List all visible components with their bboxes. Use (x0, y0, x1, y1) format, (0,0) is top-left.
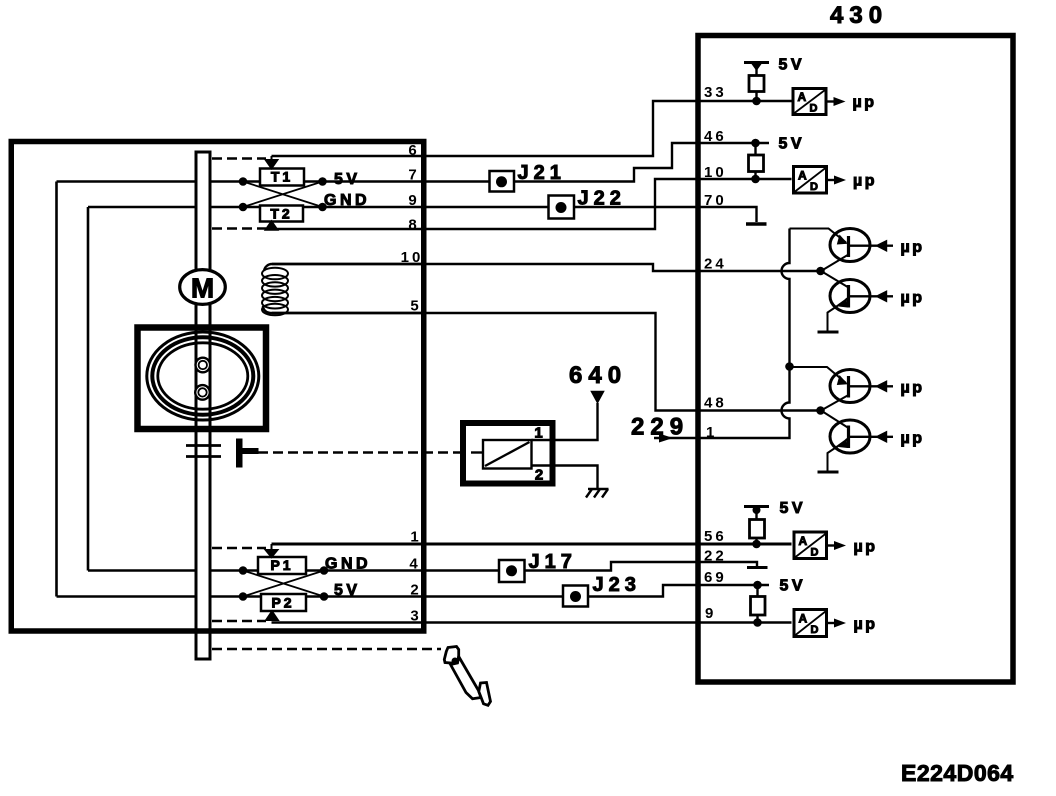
svg-text:5V: 5V (334, 171, 361, 188)
svg-text:5: 5 (410, 298, 421, 315)
svg-text:1: 1 (706, 424, 717, 441)
svg-text:J21: J21 (518, 162, 566, 184)
svg-text:5V: 5V (334, 582, 361, 599)
wire pin4 GND line through J17 to 430 pin22 (88, 562, 757, 571)
svg-text:2: 2 (410, 582, 421, 599)
junction pin9 (753, 618, 762, 627)
resistor R2 (divider pin46/pin10) (749, 155, 764, 172)
transistor Q1 (high-side driver) (790, 229, 925, 272)
wire sensor pin2 to chassis ground (532, 466, 598, 489)
potentiometer P2 (239, 592, 329, 620)
potentiometer T1 (239, 156, 327, 186)
svg-text:T1: T1 (271, 169, 293, 185)
wire crossover T1/T2 (243, 182, 323, 208)
mech dashed link shaft to pedal (212, 648, 441, 650)
ground (Q4 emitter) (818, 471, 839, 474)
mech dashed link shaft to P2 wiper (212, 620, 266, 622)
svg-text:P1: P1 (270, 557, 293, 573)
svg-text:5V: 5V (780, 578, 807, 595)
transistor Q4 (low-side driver) (818, 411, 925, 473)
svg-text:229: 229 (631, 414, 689, 441)
potentiometer T2 (239, 203, 327, 230)
svg-text:1: 1 (410, 529, 421, 546)
A/D converter U1 (pin33) (793, 89, 877, 115)
throttle butterfly disc (147, 332, 259, 420)
splice J21 (490, 162, 566, 192)
svg-text:E224D064: E224D064 (901, 760, 1014, 786)
wire T2 wiper pin8 to 430 pin10 (272, 179, 792, 229)
svg-text:9: 9 (705, 605, 716, 622)
wire crossover P1/P2 (243, 571, 324, 597)
junction at pin24 (816, 267, 825, 276)
wire T1 wiper pin6 to 430 pin33 (272, 101, 792, 156)
wire GND rail (T2 left to P1 left, x=88) (87, 207, 90, 571)
svg-text:µp: µp (901, 380, 925, 397)
5V supply tap at pin46 (749, 136, 806, 184)
svg-text:A: A (799, 612, 808, 626)
motor M (180, 270, 226, 305)
svg-text:A: A (798, 90, 807, 104)
wire pin9 GND line through J22 to 430 pin70 (88, 207, 757, 222)
transistor Q2 (low-side driver) (818, 271, 925, 332)
svg-text:D: D (810, 181, 818, 193)
svg-text:6: 6 (408, 142, 419, 159)
junction pin69 (753, 581, 762, 590)
svg-text:46: 46 (704, 128, 727, 145)
wire P2 wiper pin3 to 430 pin9 (272, 621, 792, 623)
svg-text:µp: µp (854, 616, 878, 633)
ground at 430 pin22 (747, 566, 768, 569)
A/D converter U3 (pin56) (794, 532, 878, 559)
svg-text:GND: GND (324, 192, 370, 209)
junction pin33 (752, 97, 761, 106)
idle stop lever (236, 439, 259, 468)
splice J23 (563, 574, 641, 607)
wire from 229 into 430 pin1 and driver bus (654, 229, 790, 439)
accelerator pedal (444, 647, 490, 706)
svg-text:5V: 5V (779, 57, 806, 74)
wire 5V rail (T1 left to P2 left, x=56) (55, 182, 58, 597)
svg-text:70: 70 (704, 192, 727, 209)
svg-text:4: 4 (409, 556, 420, 573)
svg-text:µp: µp (853, 94, 877, 111)
resistor R3 (pull-up pin56) (750, 520, 765, 539)
svg-text:22: 22 (704, 548, 727, 565)
wire motor pin10 to 430 pin24 (272, 264, 821, 271)
throttle body box (11, 142, 424, 632)
resistor R1 (pull-up pin33) (749, 76, 764, 92)
throttle plate box (138, 328, 267, 430)
svg-text:µp: µp (901, 290, 925, 307)
wire motor pin5 to 430 pin48 (272, 313, 821, 411)
splice J17 (499, 551, 577, 582)
svg-text:µp: µp (901, 239, 925, 256)
shaft coupling ticks (186, 446, 221, 457)
svg-text:48: 48 (704, 395, 727, 412)
svg-text:10: 10 (704, 164, 727, 181)
A/D converter U4 (pin9) (794, 610, 878, 637)
svg-text:J22: J22 (578, 188, 626, 210)
wire pin7 5V line through J21 to 430 pin46 (57, 143, 770, 182)
wire pin2 5V line through J23 to 430 pin69 (57, 585, 770, 597)
svg-text:640: 640 (569, 362, 627, 389)
svg-text:8: 8 (408, 217, 419, 234)
ground (Q2 emitter) (818, 331, 839, 334)
A/D converter U2 (pin10) (794, 167, 878, 194)
svg-text:2: 2 (535, 467, 546, 484)
disc screw lower (195, 385, 210, 400)
5V supply symbol at pin56 (744, 500, 806, 548)
svg-text:D: D (811, 547, 819, 559)
svg-text:GND: GND (325, 556, 371, 573)
svg-text:M: M (191, 273, 214, 304)
potentiometer P1 (239, 544, 329, 575)
svg-text:A: A (798, 169, 807, 183)
junction pin10 (751, 175, 760, 184)
svg-text:10: 10 (401, 249, 424, 266)
svg-text:24: 24 (704, 256, 727, 273)
junction pin46 (751, 139, 760, 148)
svg-text:µp: µp (854, 539, 878, 556)
svg-text:J17: J17 (529, 551, 577, 573)
mech dashed link shaft to T2 wiper (212, 227, 266, 229)
svg-text:9: 9 (408, 192, 419, 209)
junction pin56 (752, 540, 761, 549)
resistor R4 (divider pin69/pin9) (751, 597, 766, 616)
svg-text:5V: 5V (779, 136, 806, 153)
disc screw upper (196, 358, 211, 373)
5V supply symbol at pin33 (744, 57, 805, 106)
svg-text:430: 430 (830, 2, 888, 29)
wire P1 wiper pin1 to 430 pin56 (272, 543, 792, 546)
arrow to 640 (592, 392, 604, 403)
svg-text:T2: T2 (270, 206, 292, 222)
5V supply tap at pin69 (751, 578, 807, 627)
mech dashed link lever to sensor 640 (258, 451, 462, 453)
junction at pin48 (816, 406, 825, 415)
svg-text:5V: 5V (780, 500, 807, 517)
svg-text:P2: P2 (271, 595, 294, 611)
svg-text:7: 7 (408, 167, 419, 184)
svg-text:33: 33 (704, 84, 727, 101)
svg-text:A: A (799, 534, 808, 548)
svg-text:56: 56 (704, 528, 727, 545)
svg-text:J23: J23 (593, 574, 641, 596)
svg-text:3: 3 (410, 608, 421, 625)
sensor box (kick-down switch) (463, 423, 553, 484)
ECU box 430 (698, 36, 1013, 683)
ground at 430 pin70 (746, 222, 767, 226)
svg-text:D: D (810, 103, 818, 115)
shaft (196, 152, 210, 659)
svg-text:D: D (811, 624, 819, 636)
wire sensor pin1 to 640 (532, 403, 598, 440)
driver bus junction at Q3 (785, 362, 794, 371)
transistor Q3 (high-side driver) (790, 367, 925, 411)
arrow from 229 (659, 434, 673, 443)
splice J22 (549, 188, 626, 219)
mech dashed link shaft to P1 wiper (212, 547, 266, 549)
chassis ground (586, 489, 609, 498)
svg-text:69: 69 (704, 569, 727, 586)
svg-text:µp: µp (901, 430, 925, 447)
inductor coil (motor winding) (262, 264, 421, 315)
mech dashed link shaft to T1 wiper (212, 157, 266, 159)
svg-text:µp: µp (853, 173, 877, 190)
